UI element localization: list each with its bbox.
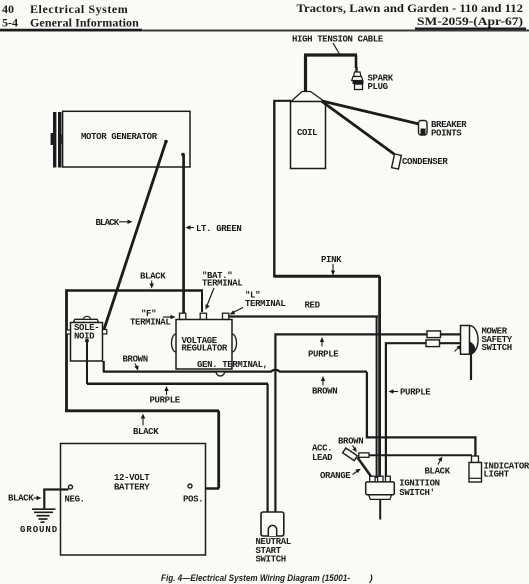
svg-text:BROWN: BROWN xyxy=(338,437,363,447)
svg-text:BLACK: BLACK xyxy=(8,494,34,504)
svg-text:General Information: General Information xyxy=(30,16,139,30)
motor generator brushes xyxy=(51,112,63,168)
voltage regulator VR1 terminals F BAT L xyxy=(180,313,229,319)
gen terminal bump xyxy=(216,372,225,376)
label INDICATOR LIGHT xyxy=(484,462,529,480)
label SPARK PLUG xyxy=(368,74,394,93)
svg-text:NEG.: NEG. xyxy=(65,495,85,505)
wire: battery NEG to ground xyxy=(44,490,68,509)
wire: to battery POS xyxy=(192,487,219,490)
svg-text:TERMINAL: TERMINAL xyxy=(245,299,285,309)
battery BT1 xyxy=(61,444,206,556)
svg-text:SWITCH: SWITCH xyxy=(256,554,286,564)
svg-text:BROWN: BROWN xyxy=(123,355,148,365)
coil C1 xyxy=(291,92,326,169)
svg-text:MOTOR GENERATOR: MOTOR GENERATOR xyxy=(81,132,158,142)
svg-text:TERMINAL: TERMINAL xyxy=(202,279,242,289)
svg-text:ORANGE: ORANGE xyxy=(320,471,351,481)
spark plug xyxy=(352,67,364,90)
header left text xyxy=(2,2,139,30)
wire: black horizontal to BAT terminal xyxy=(67,289,204,292)
indicator light LP1 xyxy=(469,456,482,482)
mower safety switch S2 xyxy=(455,326,479,381)
pointer to cable xyxy=(333,43,340,55)
svg-text:SM-2059-(Apr-67): SM-2059-(Apr-67) xyxy=(417,14,523,28)
header right text xyxy=(297,1,524,28)
wire: black down right of battery xyxy=(217,411,220,489)
wire: black bottom horizontal xyxy=(65,409,219,412)
node: generator armature terminal xyxy=(164,140,168,144)
svg-text:POS.: POS. xyxy=(183,495,203,505)
wire: brown horizontal (gen terminal wire) xyxy=(103,370,367,372)
breaker points xyxy=(419,121,428,136)
wire: brown solenoid riser xyxy=(103,361,105,372)
wire: pink down to ignition switch xyxy=(378,276,381,478)
wire: red from L terminal xyxy=(228,315,379,317)
wire: purple horizontal xyxy=(87,382,268,385)
svg-text:GEN. TERMINAL,: GEN. TERMINAL, xyxy=(197,360,268,370)
wire: lt. green generator to F terminal xyxy=(182,155,185,315)
svg-text:PINK: PINK xyxy=(321,255,342,265)
svg-text:BLACK: BLACK xyxy=(425,467,451,477)
ground xyxy=(32,509,56,522)
wire: orange to ignition switch xyxy=(358,458,373,479)
svg-text:BROWN: BROWN xyxy=(312,387,337,397)
wire: red down to ignition switch xyxy=(376,317,378,478)
svg-text:5-4: 5-4 xyxy=(2,16,18,30)
wire: high tension cable horizontal xyxy=(304,53,357,56)
svg-text:BATTERY: BATTERY xyxy=(114,483,150,493)
wire: black ignition to indicator light xyxy=(369,454,472,456)
svg-text:LEAD: LEAD xyxy=(312,453,333,463)
wire: purple from solenoid down xyxy=(86,341,88,384)
node: solenoid bottom terminal xyxy=(85,339,89,343)
svg-text:PURPLE: PURPLE xyxy=(150,396,181,406)
connector on acc lead wire xyxy=(359,453,369,457)
svg-text:NOID: NOID xyxy=(74,332,95,342)
svg-text:COIL: COIL xyxy=(297,128,317,138)
wire: cable drop to coil xyxy=(304,55,307,92)
label "BAT." TERMINAL xyxy=(202,271,242,289)
solenoid SOL1 xyxy=(66,316,107,361)
svg-text:BLACK: BLACK xyxy=(96,218,120,228)
wire: purple mower switch upper + down to neutral switch xyxy=(275,334,460,512)
svg-text:BLACK: BLACK xyxy=(140,272,166,282)
wire: drop to BAT terminal xyxy=(201,291,203,313)
motor generator MG1 xyxy=(63,111,190,167)
svg-text:PURPLE: PURPLE xyxy=(400,388,431,398)
wire: black from generator to solenoid (diagonal) xyxy=(104,142,166,331)
svg-text:PLUG: PLUG xyxy=(368,82,388,92)
svg-text:Tractors, Lawn and Garden -: Tractors, Lawn and Garden - 110 and 112 xyxy=(297,1,524,15)
wire: pink vertical from coil xyxy=(273,100,275,278)
svg-text:): ) xyxy=(369,573,373,584)
condenser xyxy=(392,154,402,169)
svg-text:ACC.: ACC. xyxy=(312,444,332,454)
label "F" TERMINAL xyxy=(130,309,170,328)
svg-text:PURPLE: PURPLE xyxy=(308,350,339,360)
wire: coil to breaker points xyxy=(322,101,419,124)
acc lead plug xyxy=(343,448,358,461)
wire: pink coil stub xyxy=(274,100,292,102)
label "L" TERMINAL xyxy=(245,291,285,310)
wire: brown down then right to indicator light xyxy=(367,372,476,457)
svg-text:RED: RED xyxy=(305,301,321,311)
wire: purple mower switch lower + down to ignition xyxy=(386,343,460,478)
svg-text:IGNITION: IGNITION xyxy=(399,479,439,489)
svg-text:Fig. 4—Electrical System Wirin: Fig. 4—Electrical System Wiring Diagram … xyxy=(161,573,350,584)
neutral start switch S3 xyxy=(261,512,284,536)
connector on mower lower wire xyxy=(426,340,440,347)
node: generator field terminal xyxy=(181,153,185,157)
label MOWER SAFETY SWITCH xyxy=(482,327,513,354)
label BREAKER POINTS xyxy=(431,120,467,139)
ignition switch S1 xyxy=(366,476,395,519)
svg-text:REGULATOR: REGULATOR xyxy=(182,344,228,354)
svg-text:LT. GREEN: LT. GREEN xyxy=(196,224,241,234)
svg-text:LIGHT: LIGHT xyxy=(484,469,510,479)
wire: pink horizontal xyxy=(274,275,380,278)
voltage regulator VR1 xyxy=(172,320,237,370)
svg-text:HIGH TENSION CABLE: HIGH TENSION CABLE xyxy=(292,35,384,45)
label NEUTRAL START SWITCH xyxy=(256,537,291,564)
wire: coil to condenser xyxy=(322,102,394,155)
svg-text:BLACK: BLACK xyxy=(133,427,159,437)
svg-text:CONDENSER: CONDENSER xyxy=(402,157,448,167)
node: battery POS terminal xyxy=(188,484,192,488)
label IGNITION SWITCH xyxy=(399,479,439,499)
svg-text:GROUND: GROUND xyxy=(20,525,58,535)
label ACC. LEAD xyxy=(312,444,333,464)
node: battery NEG terminal xyxy=(69,485,73,489)
wire: left vertical down (black) xyxy=(65,289,68,412)
svg-text:SWITCH': SWITCH' xyxy=(399,488,434,498)
svg-text:40: 40 xyxy=(2,2,14,16)
svg-text:TERMINAL: TERMINAL xyxy=(130,318,170,328)
svg-text:12-VOLT: 12-VOLT xyxy=(114,473,150,483)
connector on mower upper wire xyxy=(427,331,441,338)
svg-text:POINTS: POINTS xyxy=(431,129,462,139)
svg-text:SWITCH: SWITCH xyxy=(482,343,512,353)
wire: purple down to neutral start switch (left) xyxy=(267,384,269,512)
wire: cable drop to spark plug xyxy=(355,55,358,68)
header rule xyxy=(0,30,529,32)
svg-text:Electrical System: Electrical System xyxy=(30,2,128,16)
